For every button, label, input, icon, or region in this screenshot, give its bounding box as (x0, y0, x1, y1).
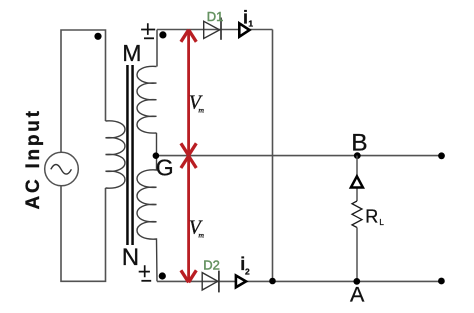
label Vm upper (189, 93, 205, 115)
wire: middle rail from center tap (156, 155, 442, 157)
plus polarity top (141, 23, 155, 35)
transformer core bar 1 (126, 65, 129, 245)
node: center tap G (153, 152, 160, 159)
inductor L1 primary winding (106, 121, 126, 188)
terminal node (primary top) (94, 33, 101, 40)
node: bottom junction (269, 278, 276, 285)
svg-text:A: A (350, 283, 365, 307)
current arrow i2 (236, 276, 246, 288)
svg-text:L: L (379, 218, 384, 227)
wire: top rail (157, 29, 273, 31)
wire: primary loop left/top/bottom (61, 30, 106, 281)
diode D2 (202, 271, 219, 293)
label RL (365, 206, 384, 227)
inductor L2 secondary upper winding (137, 66, 157, 155)
svg-text:D2: D2 (203, 257, 220, 272)
node A (353, 278, 360, 285)
terminal node (secondary bottom) (159, 272, 166, 279)
svg-text:2: 2 (245, 267, 250, 277)
svg-text:N: N (122, 244, 139, 271)
wire: bottom rail (157, 280, 442, 282)
svg-text:M: M (122, 40, 141, 66)
current arrow through load (351, 176, 363, 187)
inductor L3 secondary lower winding (137, 156, 157, 282)
node B (354, 152, 361, 159)
wire: secondary top lead (156, 30, 158, 67)
plus polarity bottom (139, 265, 150, 277)
red Vm arrow lower (181, 156, 196, 282)
svg-text:1: 1 (248, 18, 253, 28)
current arrow i1 (239, 23, 249, 36)
svg-text:m: m (198, 231, 204, 240)
AC source V1 (45, 152, 79, 186)
wire: load branch upper (356, 156, 358, 201)
label Vm lower (189, 217, 205, 239)
svg-text:G: G (156, 155, 174, 181)
svg-text:R: R (365, 206, 378, 226)
resistor RL (352, 201, 362, 228)
svg-text:AC Input: AC Input (23, 108, 44, 209)
svg-text:m: m (198, 105, 204, 114)
transformer core bar 2 (131, 65, 134, 245)
terminal node (secondary top) (159, 31, 166, 38)
svg-text:B: B (351, 129, 367, 156)
node: bottom rail right end (438, 278, 445, 285)
node: middle rail right end (438, 152, 445, 159)
svg-text:i: i (243, 7, 248, 27)
svg-text:D1: D1 (207, 9, 224, 24)
diode D1 (204, 18, 221, 40)
sine symbol (51, 165, 72, 175)
wire: load branch lower (356, 228, 358, 282)
wire: right drop from top rail to bottom rail (272, 30, 274, 282)
minus polarity bottom (141, 280, 151, 282)
minus polarity top (144, 37, 154, 39)
red Vm arrow upper (181, 30, 196, 156)
